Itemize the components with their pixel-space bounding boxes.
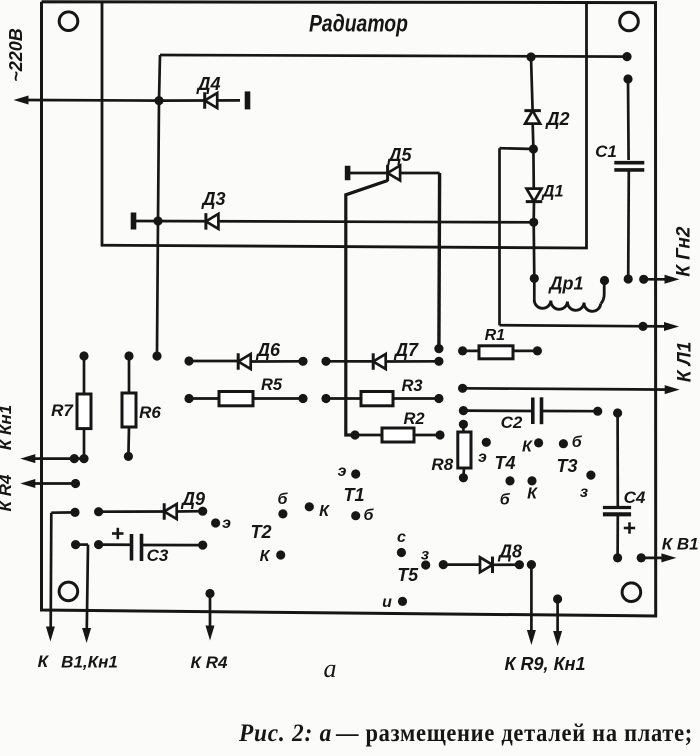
svg-text:а: а bbox=[324, 654, 337, 683]
svg-text:С4: С4 bbox=[624, 488, 646, 507]
svg-text:з: з bbox=[580, 484, 588, 501]
svg-text:R2: R2 bbox=[403, 410, 424, 428]
svg-text:э: э bbox=[222, 515, 231, 532]
svg-text:R3: R3 bbox=[401, 377, 422, 395]
svg-text:К: К bbox=[38, 652, 50, 671]
svg-text:Д7: Д7 bbox=[393, 340, 419, 360]
svg-text:К: К bbox=[522, 438, 533, 455]
svg-text:К Л1: К Л1 bbox=[675, 342, 696, 383]
svg-text:К R9, Кн1: К R9, Кн1 bbox=[504, 654, 585, 674]
svg-text:С1: С1 bbox=[595, 142, 617, 161]
svg-text:R1: R1 bbox=[485, 327, 506, 344]
svg-text:Д9: Д9 bbox=[180, 489, 205, 509]
svg-text:В1,Кн1: В1,Кн1 bbox=[61, 653, 118, 672]
svg-text:~220В: ~220В bbox=[6, 28, 26, 82]
svg-text:и: и bbox=[382, 594, 392, 611]
svg-text:Д5: Д5 bbox=[386, 145, 412, 165]
svg-text:б: б bbox=[500, 491, 511, 508]
svg-text:э: э bbox=[478, 449, 487, 466]
svg-text:б: б bbox=[364, 507, 375, 524]
svg-text:с: с bbox=[397, 529, 406, 546]
svg-text:б: б bbox=[278, 491, 289, 508]
svg-text:з: з bbox=[421, 547, 429, 564]
svg-text:Др1: Др1 bbox=[547, 274, 583, 294]
svg-text:Рис. 2: а: Рис. 2: а bbox=[238, 720, 332, 747]
svg-text:— размещение деталей на плате;: — размещение деталей на плате; bbox=[335, 720, 693, 747]
svg-text:Т1: Т1 bbox=[343, 485, 364, 505]
svg-text:Д1: Д1 bbox=[540, 183, 563, 201]
svg-text:э: э bbox=[338, 463, 347, 480]
svg-text:К R4: К R4 bbox=[191, 653, 228, 672]
svg-text:R6: R6 bbox=[139, 403, 161, 422]
svg-text:б: б bbox=[572, 434, 583, 451]
svg-text:Д6: Д6 bbox=[255, 340, 281, 360]
svg-text:К Кн1: К Кн1 bbox=[0, 405, 15, 450]
svg-text:R5: R5 bbox=[261, 376, 283, 394]
svg-text:К R4: К R4 bbox=[0, 474, 15, 511]
svg-text:С2: С2 bbox=[501, 413, 523, 432]
svg-text:Радиатор: Радиатор bbox=[309, 11, 408, 38]
svg-text:Д4: Д4 bbox=[195, 74, 220, 94]
svg-text:Д8: Д8 bbox=[497, 542, 522, 562]
svg-text:Т4: Т4 bbox=[494, 453, 515, 473]
svg-text:К: К bbox=[260, 548, 271, 565]
svg-text:R7: R7 bbox=[51, 401, 74, 420]
svg-text:С3: С3 bbox=[147, 546, 169, 565]
svg-text:Т5: Т5 bbox=[397, 565, 419, 585]
svg-text:К В1: К В1 bbox=[662, 534, 699, 553]
svg-text:Т2: Т2 bbox=[250, 522, 271, 542]
svg-text:Д2: Д2 bbox=[544, 109, 569, 129]
svg-text:К: К bbox=[527, 486, 538, 503]
svg-text:К Гн2: К Гн2 bbox=[674, 226, 695, 277]
svg-text:Д3: Д3 bbox=[200, 189, 225, 209]
svg-text:К: К bbox=[319, 503, 330, 520]
svg-text:Т3: Т3 bbox=[556, 456, 577, 476]
svg-text:R8: R8 bbox=[431, 455, 453, 474]
